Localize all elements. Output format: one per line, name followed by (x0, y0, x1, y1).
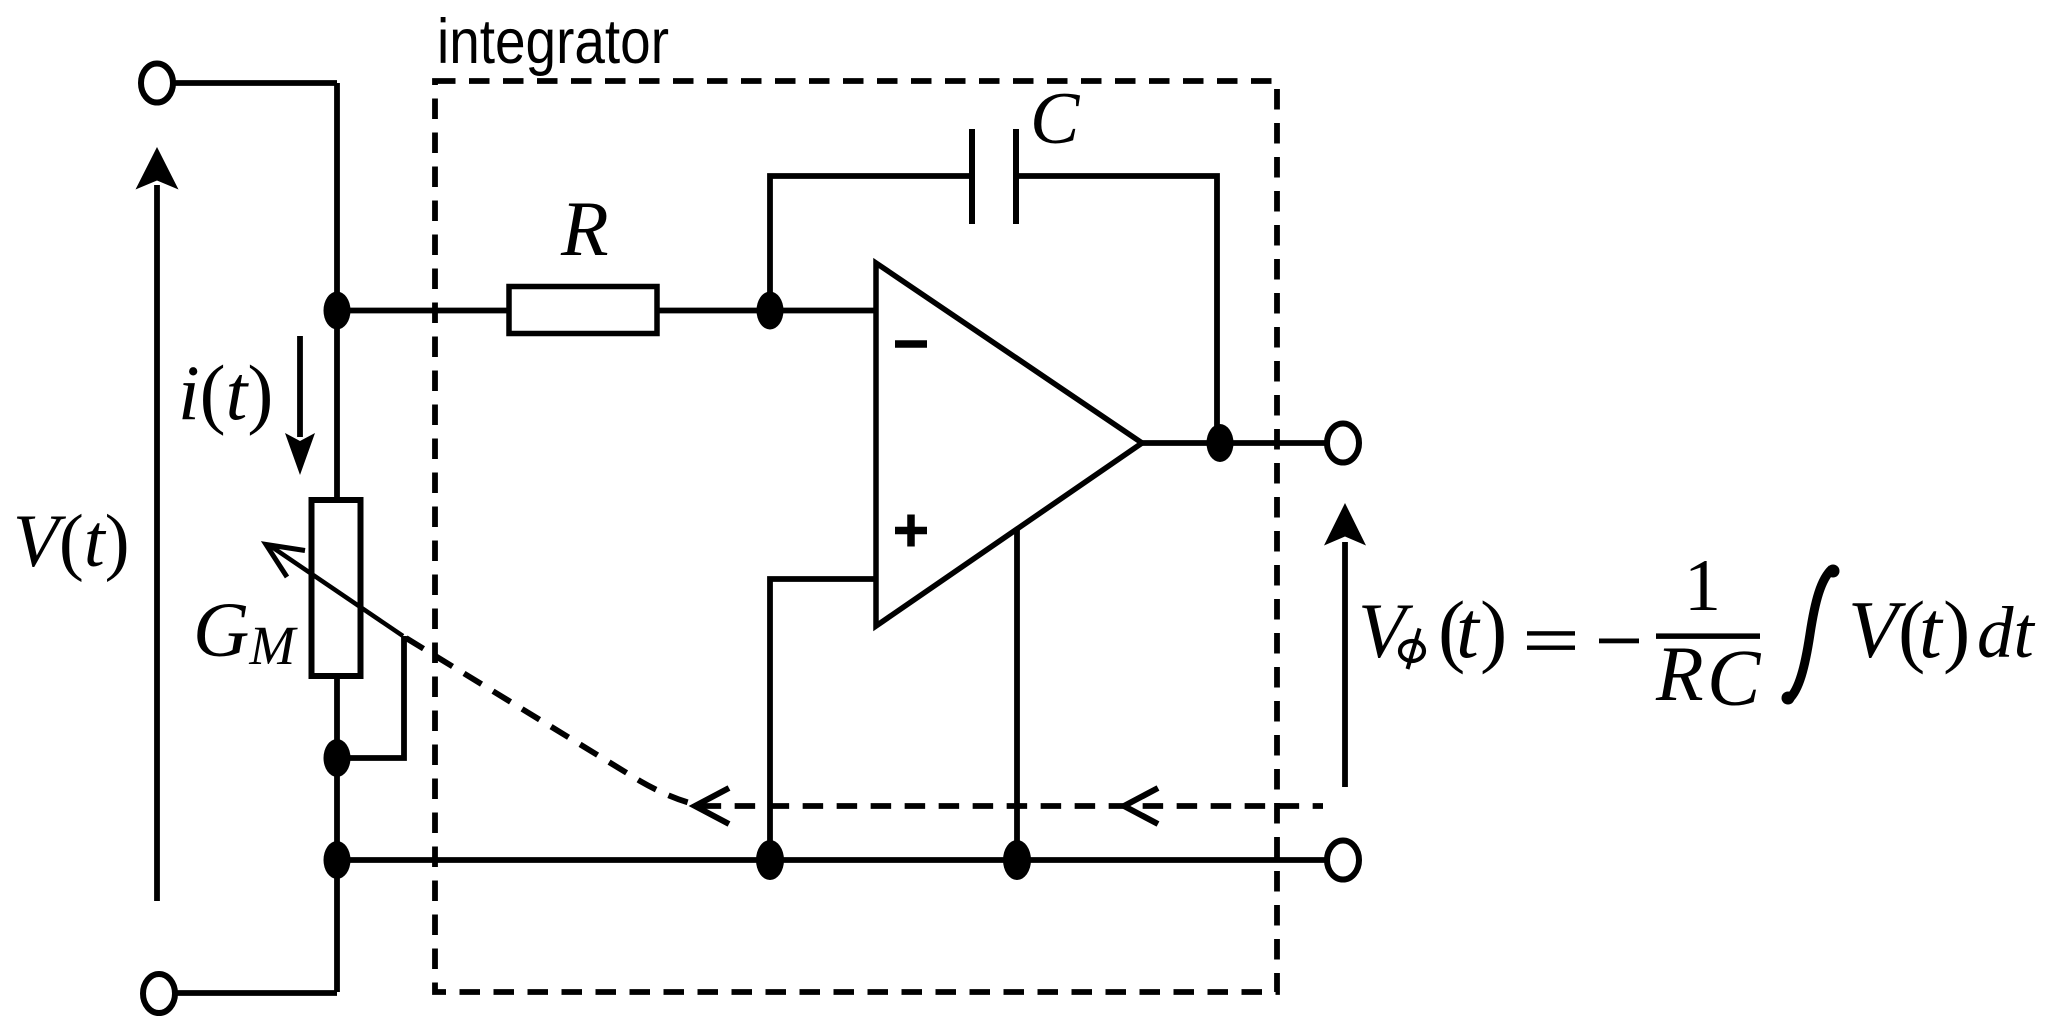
i(t) current arrow shaft (297, 336, 303, 437)
feedback arrowhead left (695, 788, 729, 824)
capacitor C left plate (969, 129, 975, 224)
wire main vertical left (334, 83, 340, 992)
svg-text:t: t (1919, 584, 1944, 675)
svg-text:t: t (1456, 584, 1481, 675)
formula fraction bar (1656, 633, 1760, 639)
wire capacitor right to output node (1016, 176, 1217, 443)
terminal top-left (141, 64, 173, 103)
op-amp inverting minus sign (895, 340, 927, 348)
op-amp non-inverting plus sign (895, 515, 927, 547)
GM wiper arrowhead (266, 545, 305, 578)
wire op-amp output (1142, 440, 1327, 446)
op-amp U1 triangle (876, 263, 1142, 626)
junction node input (324, 292, 351, 330)
feedback arrowhead right (1124, 788, 1158, 824)
svg-text:C: C (1030, 78, 1081, 160)
junction node rail mid (756, 840, 784, 880)
svg-text:i(t): i(t) (178, 349, 273, 436)
wire bottom rail (337, 857, 1327, 863)
junction node GM bottom (324, 739, 351, 777)
wire input to R and op-amp inverting input (337, 308, 876, 314)
junction node rail right (1003, 840, 1031, 880)
svg-text:1: 1 (1684, 545, 1721, 627)
GM variable conductance box (312, 500, 361, 676)
svg-text:dt: dt (1977, 592, 2036, 673)
GM wiper arrow shaft (269, 545, 403, 636)
formula Vphi(t) = -1/RC integral V(t)dt (1358, 545, 2036, 723)
Vphi output arrow shaft (1342, 542, 1348, 787)
wire GM wiper connection (343, 636, 404, 758)
terminal bottom-right (1327, 841, 1359, 880)
junction node rail left (324, 841, 351, 879)
capacitor C right plate (1013, 129, 1019, 224)
formula phi subscript (1400, 641, 1424, 661)
dashed integrator box (435, 81, 1277, 992)
Vphi output arrowhead (1324, 503, 1366, 546)
dashed feedback path (406, 638, 1323, 806)
wire non-inverting input down to bottom rail (770, 579, 876, 860)
wire inverting node up to capacitor left (770, 176, 972, 310)
junction node output (1207, 424, 1234, 462)
svg-text:R: R (1655, 630, 1704, 717)
V(t) source arrow shaft (154, 185, 160, 901)
wire top-left horizontal (173, 80, 337, 86)
formula minus (1599, 639, 1639, 644)
formula integral sign (1789, 569, 1832, 699)
svg-text:V(t): V(t) (13, 500, 130, 583)
wire bottom-left horizontal (175, 990, 337, 996)
terminal bottom-left (143, 974, 175, 1013)
junction node inverting input (757, 292, 784, 330)
terminal output (1327, 424, 1359, 463)
wire op-amp bottom to rail (1014, 529, 1020, 860)
svg-text:): ) (1480, 584, 1507, 675)
V(t) source arrowhead (136, 147, 179, 190)
svg-text:integrator: integrator (437, 7, 669, 77)
resistor R box (509, 287, 657, 334)
svg-text:R: R (560, 185, 609, 272)
i(t) current arrowhead (285, 433, 315, 475)
svg-text:): ) (1943, 584, 1970, 675)
svg-text:C: C (1707, 635, 1762, 723)
formula equals (1527, 631, 1575, 635)
